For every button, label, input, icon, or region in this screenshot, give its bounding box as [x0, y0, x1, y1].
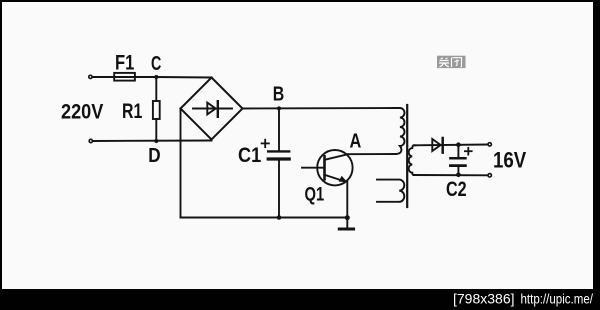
svg-text:B: B	[273, 83, 285, 105]
junction: C1 bottom on ground rail	[277, 215, 282, 220]
resistor R1	[153, 77, 160, 141]
svg-text:http://upic.me/: http://upic.me/	[521, 291, 594, 307]
wire: AC top to node C	[93, 76, 157, 78]
wire: node A (collector) to transformer primary bottom	[347, 153, 397, 155]
wire: bridge left corner down to ground rail	[180, 109, 182, 218]
node C	[154, 75, 158, 79]
svg-text:16V: 16V	[493, 147, 526, 172]
svg-text:220V: 220V	[61, 99, 104, 123]
svg-text:C1: C1	[238, 144, 261, 167]
fuse F1	[114, 73, 135, 81]
terminal: output plus	[488, 143, 491, 146]
transformer core	[406, 105, 408, 207]
svg-text:C: C	[151, 53, 161, 75]
terminal: output minus	[488, 174, 491, 177]
svg-text:R1: R1	[122, 100, 143, 123]
close button	[437, 56, 466, 68]
capacitor C2	[450, 145, 465, 175]
frame bars (decorative)	[0, 0, 600, 2]
transformer secondary winding	[409, 145, 416, 175]
svg-text:A: A	[350, 131, 362, 153]
plus sign of C1	[262, 140, 269, 147]
svg-text:Q1: Q1	[305, 184, 325, 205]
diode D1	[432, 138, 442, 153]
bridge rectifier	[181, 78, 243, 140]
svg-text:C2: C2	[446, 178, 467, 201]
wire: bridge right corner to transformer primary top (through node B)	[243, 107, 398, 110]
junction: C2 bottom	[456, 173, 461, 178]
capacitor C1	[268, 109, 289, 218]
terminal: AC input top	[89, 75, 92, 78]
transformer feedback winding	[377, 180, 404, 202]
transistor Q1	[302, 150, 353, 185]
svg-text:D: D	[148, 145, 160, 167]
wire: ground rail	[181, 217, 348, 219]
transformer primary winding	[394, 108, 405, 154]
wire: secondary top to output +	[414, 144, 488, 147]
svg-text:[798x386]: [798x386]	[453, 291, 515, 307]
plus sign of C2	[465, 148, 472, 155]
node D	[154, 139, 158, 143]
wire: secondary bottom to output -	[414, 174, 488, 176]
wire: node C to bridge top corner	[156, 76, 211, 79]
terminal: AC input bottom	[89, 139, 92, 142]
ground	[339, 218, 353, 230]
wire: emitter down to ground junction	[346, 182, 348, 218]
junction: emitter to ground rail	[345, 215, 350, 220]
node B	[277, 106, 281, 110]
wire: AC bottom through node D to bridge bottom corner	[93, 140, 212, 143]
junction: C2 top	[456, 142, 461, 147]
svg-text:F1: F1	[115, 51, 135, 74]
